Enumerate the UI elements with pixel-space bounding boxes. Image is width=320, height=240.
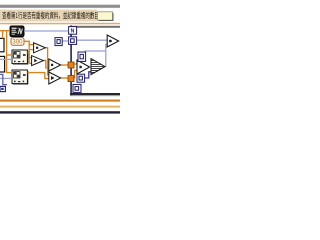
svg-text:300: 300 [12,40,23,46]
svg-text:N: N [71,29,75,35]
svg-text:查看第1行是否有重複的資料，並記錄重複的數目: 查看第1行是否有重複的資料，並記錄重複的數目 [2,11,99,21]
